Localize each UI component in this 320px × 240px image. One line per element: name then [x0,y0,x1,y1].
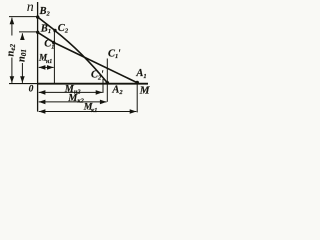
point C1 [52,41,55,44]
svg-text:n: n [27,0,34,15]
dimension double arrow M_n1 [39,66,54,68]
wire: extension line from B2 to left [9,16,38,18]
svg-text:С2': С2' [91,70,104,82]
dropline from C2' to M_n2 row [102,79,104,93]
line C2-A2 (engine 2 overload branch) [55,31,107,83]
dimension row M_n2 [39,91,103,93]
M axis [9,83,38,85]
svg-text:0: 0 [29,84,34,94]
line B1-C1 (engine 1 regulator branch) [38,32,54,42]
line B2-C2 (engine 2 regulator branch) [38,17,55,31]
point B2 [36,15,39,18]
point A2 [106,81,110,85]
dropline from A1 to M_k1 row [136,84,138,113]
dropline from C2 through C1 to M axis (M_n1 boundary) [53,31,55,84]
dimension n_e1 vertical line [21,33,23,83]
svg-text:С1': С1' [108,48,121,60]
point C2 [53,29,56,32]
dimension n_e2 vertical line [11,18,13,83]
label n_01 (rotated) [16,40,28,63]
point B1 [36,31,39,34]
svg-text:М: М [139,85,151,97]
dimension row M_k2 [39,101,107,103]
wire: extension line from B1 to left [19,31,38,33]
point A1 [135,81,139,85]
dimension row M_k1 [39,111,137,113]
label n_e2 (rotated) [6,36,18,58]
n axis [37,2,39,112]
background [0,0,156,119]
line C1-A1 (engine 1 overload branch) [54,42,138,82]
point C1' tick (vertical through A2 abscissa) [106,59,108,102]
